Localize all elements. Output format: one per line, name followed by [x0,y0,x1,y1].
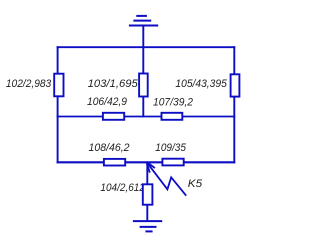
ground top (inverted earth symbol) [129,16,158,26]
wire left vertical branch [57,46,59,163]
wire row2 horizontal [57,116,236,118]
svg-text:106/42,9: 106/42,9 [87,96,127,108]
resistor R108 [104,159,125,166]
wire row3 horizontal [57,161,236,163]
svg-text:103/1,695: 103/1,695 [88,78,139,90]
resistor R106 [103,113,124,120]
ground bottom (earth symbol) [133,221,162,231]
svg-text:104/2,612: 104/2,612 [100,182,144,194]
relay contact arrow K5 with lightning stroke [146,162,186,196]
resistor R103 [139,74,148,97]
wire right vertical branch [233,46,235,163]
resistor R102 [54,74,63,97]
wire branch to R104 [146,162,148,221]
resistor R105 [231,74,240,96]
resistor R107 [162,113,183,120]
svg-text:107/39,2: 107/39,2 [153,96,193,108]
resistor R104 [143,184,153,204]
svg-text:105/43,395: 105/43,395 [175,78,227,90]
wire top horizontal bus [57,46,236,48]
svg-text:102/2,983: 102/2,983 [6,78,52,90]
svg-text:109/35: 109/35 [155,142,186,154]
svg-text:108/46,2: 108/46,2 [89,142,130,154]
wire middle vertical branch [142,26,144,118]
svg-text:K5: K5 [188,178,203,190]
resistor R109 [162,159,183,166]
